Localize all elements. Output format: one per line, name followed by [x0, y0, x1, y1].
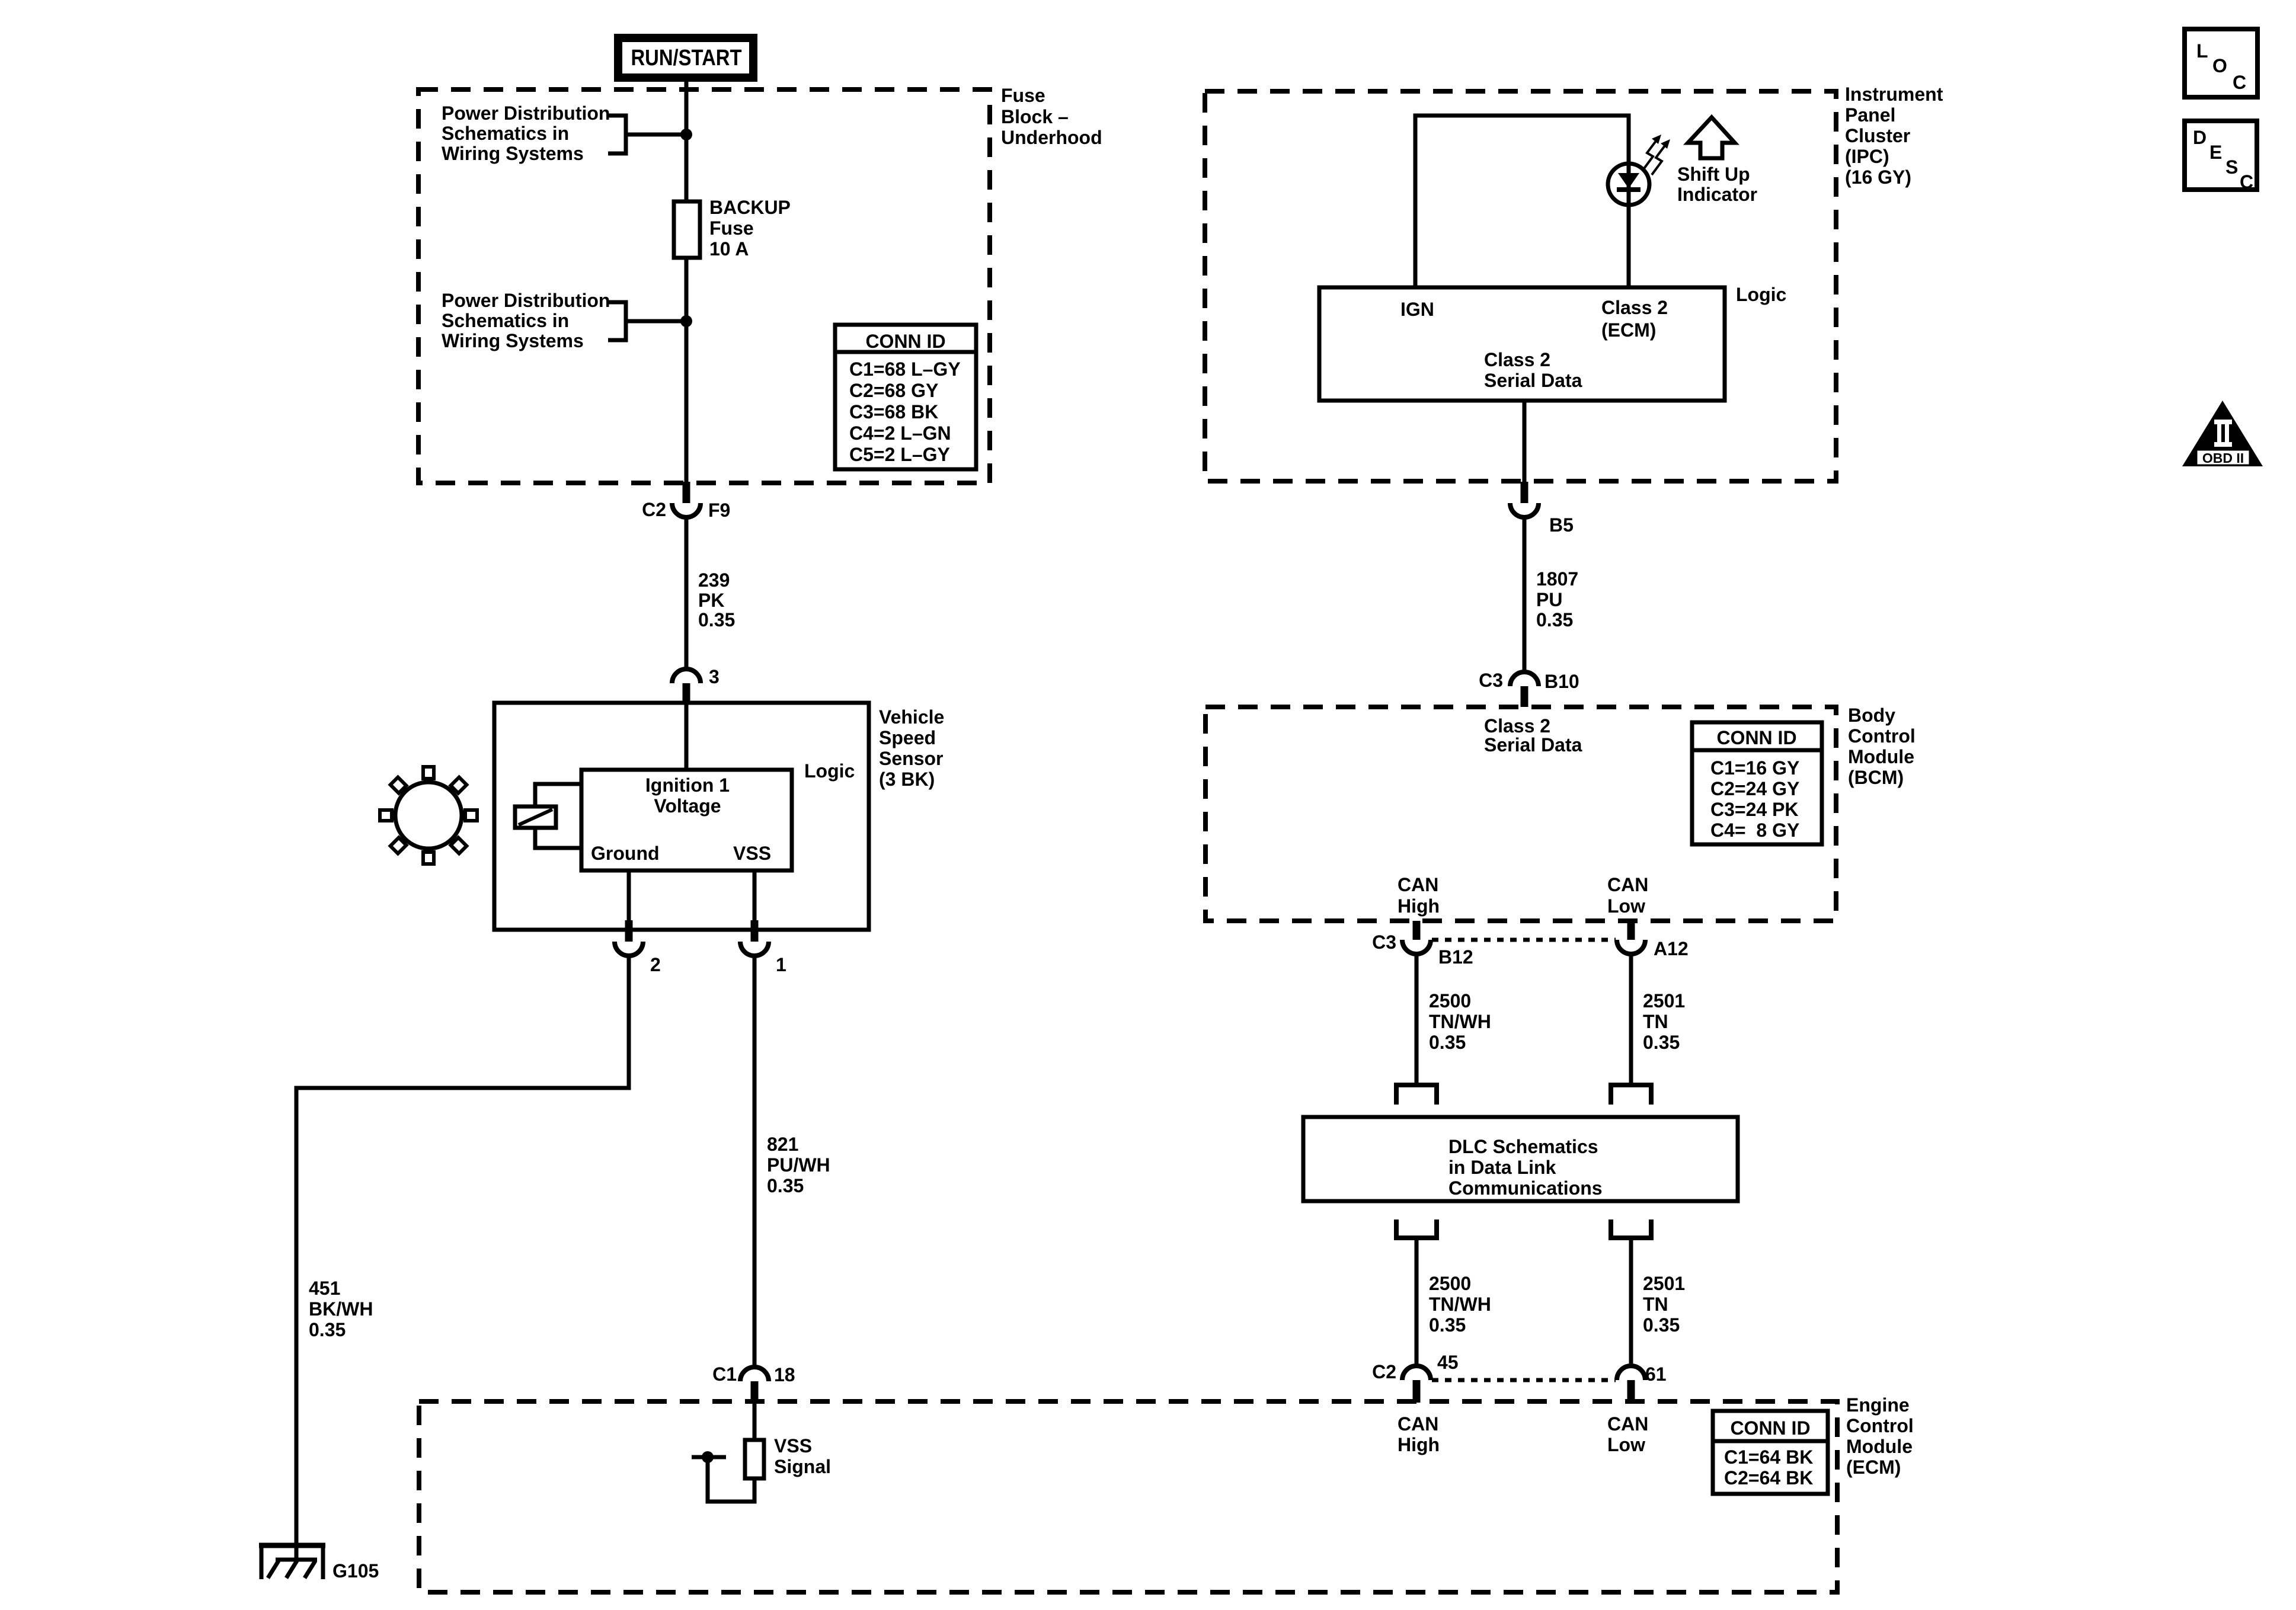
connector C3 B10 — [1479, 670, 1579, 707]
bracket power distribution reference 1 — [608, 116, 626, 153]
wire IGN loop top — [1415, 116, 1629, 287]
connector C1 18 — [712, 1363, 795, 1404]
svg-text:VSS: VSS — [733, 843, 771, 864]
svg-text:B5: B5 — [1549, 514, 1574, 536]
svg-text:2: 2 — [650, 954, 661, 975]
svg-text:PK: PK — [698, 590, 724, 611]
svg-text:C3=68 BK: C3=68 BK — [849, 401, 938, 422]
svg-text:CAN: CAN — [1607, 1413, 1648, 1435]
wire branch 2 to power distribution reference — [626, 319, 686, 324]
svg-text:1: 1 — [776, 954, 786, 975]
label wire 2500 TN/WH 0.35 upper — [1429, 990, 1491, 1053]
fuse BACKUP 10A — [674, 201, 700, 258]
svg-text:Power Distribution: Power Distribution — [442, 103, 610, 124]
svg-text:Control: Control — [1846, 1415, 1914, 1436]
wire internal stub with junction — [692, 1455, 726, 1459]
svg-text:451: 451 — [309, 1278, 340, 1299]
fuse block underhood dashed box — [418, 89, 990, 483]
label Power Distribution Schematics in Wiring Systems 1 — [442, 103, 610, 164]
svg-text:in Data Link: in Data Link — [1448, 1157, 1556, 1178]
CONN ID table BCM — [1692, 722, 1822, 844]
connector pin 1 — [740, 920, 786, 975]
svg-text:Indicator: Indicator — [1677, 184, 1757, 205]
svg-text:Fuse: Fuse — [709, 217, 754, 239]
connector pin 3 VSS — [672, 666, 720, 703]
svg-text:1807: 1807 — [1536, 568, 1578, 590]
svg-text:C: C — [2240, 171, 2253, 193]
svg-text:B10: B10 — [1544, 671, 1579, 692]
DLC schematics box — [1303, 1117, 1738, 1201]
wire CAN Low to DLC — [1629, 954, 1633, 1083]
label CAN High ECM — [1398, 1413, 1440, 1455]
OBD II symbol — [2182, 401, 2263, 466]
wire DLC to ECM CAN High — [1415, 1238, 1419, 1366]
svg-text:C2: C2 — [1372, 1361, 1396, 1382]
connector pin 2 — [615, 920, 661, 975]
label Shift Up Indicator — [1677, 164, 1757, 205]
svg-text:(3 BK): (3 BK) — [879, 769, 935, 790]
LOC reference box — [2185, 29, 2257, 97]
svg-text:Voltage: Voltage — [654, 795, 721, 817]
junction dot VSS signal — [702, 1451, 714, 1463]
offpage bracket DLC top left — [1396, 1085, 1437, 1105]
CONN ID table fuse block — [835, 325, 976, 469]
svg-text:C2=68 GY: C2=68 GY — [849, 380, 938, 401]
svg-text:TN: TN — [1643, 1011, 1668, 1032]
svg-text:Ground: Ground — [591, 843, 660, 864]
label CAN Low BCM — [1607, 874, 1648, 917]
svg-text:CAN: CAN — [1607, 874, 1648, 895]
svg-text:Serial Data: Serial Data — [1484, 734, 1582, 756]
svg-text:C2=24 GY: C2=24 GY — [1710, 778, 1799, 799]
svg-text:Wiring Systems: Wiring Systems — [442, 330, 584, 351]
svg-text:Class 2: Class 2 — [1484, 349, 1550, 370]
svg-text:C3: C3 — [1479, 670, 1503, 691]
svg-text:C4=2 L–GN: C4=2 L–GN — [849, 422, 951, 444]
svg-text:BK/WH: BK/WH — [309, 1298, 373, 1320]
svg-text:(16 GY): (16 GY) — [1845, 167, 1911, 188]
wire CAN High to DLC — [1415, 954, 1419, 1083]
DESC reference box — [2185, 121, 2257, 193]
svg-text:(BCM): (BCM) — [1848, 767, 1904, 788]
svg-text:Control: Control — [1848, 725, 1916, 747]
svg-text:C1=16 GY: C1=16 GY — [1710, 757, 1799, 779]
svg-text:2501: 2501 — [1643, 990, 1685, 1012]
svg-text:Serial Data: Serial Data — [1484, 370, 1582, 391]
svg-text:High: High — [1398, 895, 1440, 917]
svg-text:IGN: IGN — [1400, 299, 1434, 320]
svg-text:C1: C1 — [712, 1363, 737, 1385]
svg-text:2500: 2500 — [1429, 990, 1471, 1012]
svg-text:Logic: Logic — [804, 760, 855, 782]
svg-text:Vehicle: Vehicle — [879, 706, 944, 728]
svg-text:Schematics in: Schematics in — [442, 123, 569, 144]
label BACKUP Fuse 10 A — [709, 197, 791, 260]
svg-text:Instrument: Instrument — [1845, 84, 1943, 105]
shift up arrow symbol — [1688, 117, 1735, 158]
label CAN Low ECM — [1607, 1413, 1648, 1455]
svg-text:0.35: 0.35 — [309, 1319, 346, 1340]
label wire 1807 PU 0.35 — [1536, 568, 1578, 630]
svg-text:Speed: Speed — [879, 727, 936, 748]
svg-text:0.35: 0.35 — [698, 609, 735, 630]
svg-text:CAN: CAN — [1398, 1413, 1438, 1435]
svg-text:C2=64 BK: C2=64 BK — [1724, 1467, 1813, 1489]
svg-text:Module: Module — [1846, 1436, 1913, 1457]
ground G105 — [259, 1545, 379, 1582]
svg-text:C2: C2 — [642, 499, 666, 520]
svg-text:3: 3 — [709, 666, 720, 687]
svg-text:CONN ID: CONN ID — [865, 331, 945, 352]
wire 239 PK circuit — [685, 517, 689, 669]
svg-text:(IPC): (IPC) — [1845, 146, 1889, 167]
svg-text:CONN ID: CONN ID — [1716, 727, 1796, 748]
svg-text:(ECM): (ECM) — [1601, 319, 1656, 341]
offpage bracket DLC bottom left — [1396, 1219, 1437, 1238]
wire VSS signal return loop — [708, 1457, 754, 1502]
label wire 451 BK/WH 0.35 — [309, 1278, 373, 1340]
instrument panel cluster dashed box — [1205, 91, 1836, 481]
svg-text:Logic: Logic — [1736, 284, 1786, 305]
svg-text:Cluster: Cluster — [1845, 125, 1910, 146]
svg-text:OBD II: OBD II — [2202, 450, 2244, 466]
svg-text:Panel: Panel — [1845, 104, 1895, 126]
svg-text:BACKUP: BACKUP — [709, 197, 791, 218]
offpage bracket DLC top right — [1611, 1085, 1651, 1105]
svg-text:TN/WH: TN/WH — [1429, 1011, 1491, 1032]
svg-text:Shift Up: Shift Up — [1677, 164, 1750, 185]
resistor VSS Signal — [745, 1404, 831, 1478]
svg-text:Engine: Engine — [1846, 1394, 1910, 1416]
svg-text:821: 821 — [767, 1134, 798, 1155]
label Instrument Panel Cluster (IPC) (16 GY) — [1845, 84, 1943, 188]
svg-text:C: C — [2233, 72, 2246, 93]
label Fuse Block - Underhood — [1001, 85, 1102, 148]
svg-text:F9: F9 — [708, 500, 730, 521]
connector B5 — [1510, 482, 1574, 536]
svg-text:0.35: 0.35 — [1429, 1032, 1466, 1053]
label wire 2501 TN 0.35 upper — [1643, 990, 1685, 1053]
svg-text:0.35: 0.35 — [1643, 1314, 1680, 1336]
svg-text:2501: 2501 — [1643, 1273, 1685, 1294]
svg-text:61: 61 — [1645, 1363, 1667, 1385]
wire branch 1 to power distribution reference — [626, 133, 686, 137]
svg-text:2500: 2500 — [1429, 1273, 1471, 1294]
bracket power distribution reference 2 — [608, 302, 626, 340]
svg-text:A12: A12 — [1654, 938, 1689, 959]
dotted connector line 45 61 — [1432, 1378, 1616, 1382]
IPC logic box — [1319, 287, 1725, 401]
svg-text:Schematics in: Schematics in — [442, 310, 569, 331]
junction dot node 1 — [680, 129, 692, 140]
engine control module dashed box — [419, 1401, 1837, 1592]
svg-text:Low: Low — [1607, 895, 1645, 917]
svg-text:C1=64 BK: C1=64 BK — [1724, 1446, 1813, 1468]
svg-text:Power Distribution: Power Distribution — [442, 290, 610, 311]
label Class 2 Serial Data IPC — [1484, 349, 1582, 391]
svg-text:E: E — [2209, 142, 2222, 163]
connector A12 — [1617, 921, 1689, 959]
label wire 821 PU/WH 0.35 — [767, 1134, 830, 1196]
svg-text:S: S — [2225, 156, 2238, 178]
svg-text:0.35: 0.35 — [1536, 609, 1573, 630]
svg-text:D: D — [2193, 127, 2207, 148]
label Body Control Module (BCM) — [1848, 705, 1916, 788]
svg-text:B12: B12 — [1438, 946, 1473, 968]
label Engine Control Module (ECM) — [1846, 1394, 1914, 1478]
wire RUN/START to fuse — [685, 78, 689, 201]
CONN ID table ECM — [1713, 1411, 1828, 1494]
junction dot node 2 — [680, 315, 692, 327]
label wire 239 PK 0.35 — [698, 569, 735, 630]
LED light arrows — [1643, 135, 1670, 175]
svg-text:VSS: VSS — [774, 1435, 812, 1457]
wire DLC to ECM CAN Low — [1629, 1238, 1633, 1366]
connector C2 F9 — [642, 482, 730, 521]
svg-text:Underhood: Underhood — [1001, 127, 1102, 148]
svg-text:C3: C3 — [1372, 932, 1396, 953]
svg-text:CAN: CAN — [1398, 874, 1438, 895]
svg-text:239: 239 — [698, 569, 730, 591]
vehicle speed sensor outer box — [494, 703, 869, 930]
svg-text:TN: TN — [1643, 1294, 1668, 1315]
reluctor gear symbol — [380, 767, 477, 864]
node RUN/START voltage source box — [618, 38, 753, 78]
label Vehicle Speed Sensor (3 BK) — [879, 706, 944, 790]
svg-text:C5=2 L–GY: C5=2 L–GY — [849, 444, 950, 465]
wire ground pin inside VSS — [627, 870, 631, 920]
label Power Distribution Schematics in Wiring Systems 2 — [442, 290, 610, 351]
label CAN High BCM — [1398, 874, 1440, 917]
label Class 2 Serial Data BCM — [1484, 715, 1582, 756]
svg-text:Wiring Systems: Wiring Systems — [442, 143, 584, 164]
body control module dashed box — [1205, 707, 1836, 921]
label Class 2 (ECM) pin — [1601, 297, 1668, 341]
svg-text:CONN ID: CONN ID — [1730, 1417, 1810, 1439]
svg-text:PU: PU — [1536, 589, 1562, 610]
wire 821 PU/WH — [753, 956, 757, 1367]
svg-text:L: L — [2196, 40, 2208, 62]
label wire 2500 TN/WH 0.35 lower — [1429, 1273, 1491, 1336]
connector C2 45 — [1372, 1352, 1459, 1403]
label wire 2501 TN 0.35 lower — [1643, 1273, 1685, 1336]
svg-text:45: 45 — [1437, 1352, 1459, 1373]
label Ignition 1 Voltage — [645, 774, 730, 817]
svg-text:Class 2: Class 2 — [1484, 715, 1550, 737]
svg-text:Communications: Communications — [1448, 1177, 1603, 1199]
connector 61 — [1617, 1363, 1667, 1403]
svg-text:Body: Body — [1848, 705, 1895, 726]
svg-text:DLC Schematics: DLC Schematics — [1448, 1136, 1598, 1157]
wire class 2 serial data down — [1523, 401, 1527, 482]
dotted connector line B12 A12 — [1432, 938, 1616, 942]
offpage bracket DLC bottom right — [1611, 1219, 1651, 1238]
svg-text:O: O — [2212, 55, 2227, 76]
svg-text:Ignition 1: Ignition 1 — [645, 774, 730, 796]
wire VSS pin inside VSS box — [753, 870, 757, 920]
svg-text:C4= 8 GY: C4= 8 GY — [1710, 820, 1799, 841]
svg-text:0.35: 0.35 — [1429, 1314, 1466, 1336]
svg-text:Low: Low — [1607, 1434, 1645, 1455]
LED shift up indicator — [1608, 164, 1649, 205]
connector C3 B12 — [1372, 921, 1473, 968]
VSS logic inner box — [581, 770, 792, 870]
svg-text:G105: G105 — [332, 1560, 379, 1582]
pickup coil sensor element — [515, 784, 581, 848]
svg-text:C1=68 L–GY: C1=68 L–GY — [849, 359, 961, 380]
svg-text:PU/WH: PU/WH — [767, 1154, 830, 1176]
svg-text:TN/WH: TN/WH — [1429, 1294, 1491, 1315]
svg-text:Sensor: Sensor — [879, 748, 943, 769]
svg-text:10 A: 10 A — [709, 238, 749, 260]
svg-text:Class 2: Class 2 — [1601, 297, 1668, 318]
svg-text:(ECM): (ECM) — [1846, 1457, 1901, 1478]
svg-text:Block –: Block – — [1001, 106, 1069, 127]
svg-text:0.35: 0.35 — [1643, 1032, 1680, 1053]
svg-text:Module: Module — [1848, 746, 1914, 767]
wire 1807 PU — [1523, 517, 1527, 672]
wire pin3 to logic box — [685, 703, 689, 770]
svg-text:Signal: Signal — [774, 1456, 831, 1477]
svg-text:0.35: 0.35 — [767, 1175, 804, 1196]
svg-text:High: High — [1398, 1434, 1440, 1455]
svg-text:Fuse: Fuse — [1001, 85, 1045, 106]
wire 451 BK/WH ground run — [296, 956, 629, 1545]
svg-text:18: 18 — [774, 1364, 795, 1385]
svg-text:C3=24 PK: C3=24 PK — [1710, 799, 1799, 820]
svg-text:RUN/START: RUN/START — [631, 46, 742, 71]
wire fuse to C2 connector stub — [685, 258, 689, 482]
